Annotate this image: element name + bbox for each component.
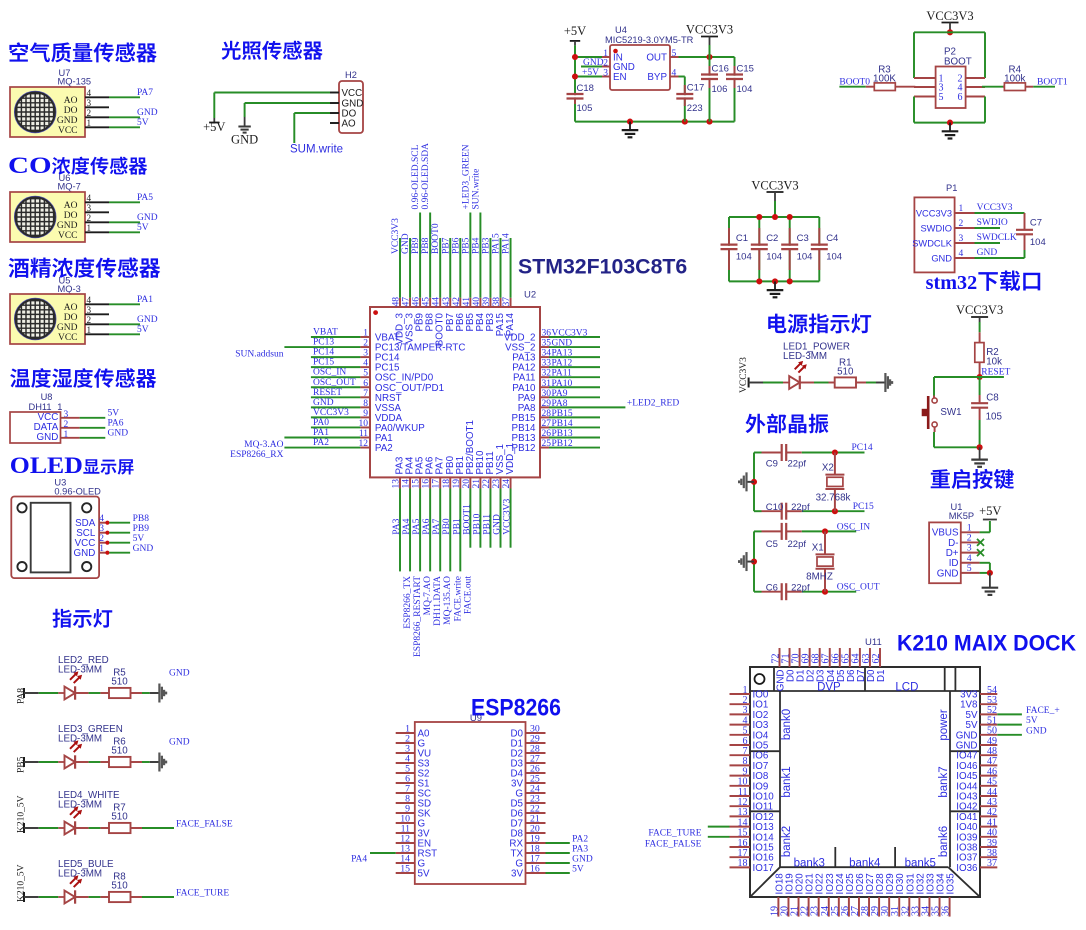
svg-text:22pf: 22pf bbox=[791, 502, 810, 513]
svg-text:STM32F103C8T6: STM32F103C8T6 bbox=[518, 255, 687, 279]
svg-text:22pf: 22pf bbox=[791, 582, 810, 593]
svg-text:VCC3V3: VCC3V3 bbox=[503, 499, 513, 535]
svg-text:PB12: PB12 bbox=[552, 439, 573, 449]
svg-text:C7: C7 bbox=[1030, 218, 1042, 229]
svg-text:100K: 100K bbox=[873, 74, 896, 85]
svg-text:bank2: bank2 bbox=[781, 826, 793, 857]
svg-text:SUN.addsun: SUN.addsun bbox=[235, 349, 284, 359]
svg-text:H2: H2 bbox=[345, 70, 357, 80]
svg-text:2: 2 bbox=[363, 339, 368, 349]
svg-text:5V: 5V bbox=[1026, 716, 1038, 726]
svg-text:IO36: IO36 bbox=[956, 863, 978, 874]
svg-text:3: 3 bbox=[603, 68, 608, 78]
svg-text:VCC3V3: VCC3V3 bbox=[926, 9, 973, 23]
svg-text:SWDIO: SWDIO bbox=[920, 223, 952, 233]
svg-text:U11: U11 bbox=[865, 637, 882, 648]
svg-text:IO35: IO35 bbox=[946, 873, 957, 895]
svg-text:GND: GND bbox=[977, 248, 998, 258]
svg-text:FACE_TURE: FACE_TURE bbox=[176, 889, 229, 899]
svg-text:DO: DO bbox=[64, 106, 78, 116]
svg-text:AO: AO bbox=[64, 303, 78, 313]
svg-text:PB9: PB9 bbox=[133, 524, 150, 534]
svg-text:C6: C6 bbox=[766, 582, 778, 593]
svg-text:PC13: PC13 bbox=[313, 338, 334, 348]
svg-text:U8: U8 bbox=[41, 392, 53, 402]
svg-text:GND: GND bbox=[572, 855, 593, 865]
svg-text:0.96-OLED.SDA: 0.96-OLED.SDA bbox=[421, 143, 431, 210]
svg-text:4: 4 bbox=[363, 359, 368, 369]
svg-text:SWDCLK: SWDCLK bbox=[977, 233, 1017, 243]
svg-text:20: 20 bbox=[462, 479, 472, 489]
svg-text:6: 6 bbox=[958, 92, 963, 103]
svg-text:GND: GND bbox=[493, 514, 503, 535]
svg-text:LED-3MM: LED-3MM bbox=[783, 351, 827, 362]
svg-text:5: 5 bbox=[363, 369, 368, 379]
svg-text:104: 104 bbox=[1030, 237, 1046, 248]
svg-text:1: 1 bbox=[87, 223, 92, 233]
svg-text:PC14: PC14 bbox=[313, 348, 334, 358]
svg-text:PC15: PC15 bbox=[313, 358, 334, 368]
svg-text:PA2: PA2 bbox=[313, 438, 329, 448]
svg-text:OSC_OUT: OSC_OUT bbox=[313, 378, 356, 388]
svg-text:2: 2 bbox=[87, 315, 92, 325]
svg-text:C2: C2 bbox=[766, 233, 778, 244]
svg-text:PA3: PA3 bbox=[392, 518, 402, 534]
svg-text:14: 14 bbox=[402, 479, 412, 489]
svg-text:bank0: bank0 bbox=[781, 709, 793, 740]
svg-text:2: 2 bbox=[87, 213, 92, 223]
svg-text:2: 2 bbox=[87, 108, 92, 118]
svg-text:GND: GND bbox=[169, 738, 190, 748]
svg-text:GND: GND bbox=[231, 133, 258, 147]
svg-text:2: 2 bbox=[959, 219, 964, 229]
svg-text:+5V: +5V bbox=[203, 120, 225, 134]
svg-text:PA3: PA3 bbox=[572, 845, 588, 855]
svg-text:22pf: 22pf bbox=[788, 539, 807, 550]
svg-text:BOOT1: BOOT1 bbox=[462, 504, 472, 535]
svg-text:+5V: +5V bbox=[564, 24, 586, 38]
svg-text:C5: C5 bbox=[766, 539, 778, 550]
svg-text:3: 3 bbox=[959, 234, 964, 244]
svg-text:1: 1 bbox=[64, 430, 69, 440]
svg-text:RESET: RESET bbox=[313, 388, 342, 398]
svg-text:GND: GND bbox=[133, 544, 154, 554]
svg-text:C8: C8 bbox=[986, 393, 999, 404]
svg-text:18: 18 bbox=[738, 858, 748, 869]
svg-text:5V: 5V bbox=[133, 534, 145, 544]
svg-text:AO: AO bbox=[64, 201, 78, 211]
svg-text:PA4: PA4 bbox=[351, 855, 367, 865]
svg-text:FACE_FALSE: FACE_FALSE bbox=[176, 820, 233, 830]
svg-text:2: 2 bbox=[99, 534, 104, 544]
svg-text:DH11.DATA: DH11.DATA bbox=[433, 576, 443, 626]
svg-text:510: 510 bbox=[111, 812, 128, 823]
svg-text:MK5P: MK5P bbox=[949, 511, 974, 521]
svg-text:5V: 5V bbox=[137, 223, 149, 233]
svg-text:8MHZ: 8MHZ bbox=[806, 572, 833, 583]
svg-text:4: 4 bbox=[99, 514, 104, 524]
svg-text:+LED2_RED: +LED2_RED bbox=[627, 399, 679, 409]
svg-text:PB5: PB5 bbox=[461, 237, 471, 254]
svg-text:LED-3MM: LED-3MM bbox=[58, 869, 102, 880]
svg-text:41: 41 bbox=[462, 297, 472, 307]
svg-text:PA12: PA12 bbox=[552, 359, 573, 369]
svg-text:PA15: PA15 bbox=[492, 233, 502, 254]
svg-text:22pf: 22pf bbox=[788, 459, 807, 470]
svg-text:PC15: PC15 bbox=[853, 502, 874, 512]
svg-text:6: 6 bbox=[363, 379, 368, 389]
svg-text:PB7: PB7 bbox=[441, 237, 451, 254]
svg-text:40: 40 bbox=[472, 297, 482, 307]
svg-text:LCD: LCD bbox=[895, 682, 918, 694]
svg-text:46: 46 bbox=[412, 297, 422, 307]
svg-text:MQ-135.AO: MQ-135.AO bbox=[443, 576, 453, 625]
svg-text:MQ-3.AO: MQ-3.AO bbox=[244, 440, 283, 450]
svg-text:C16: C16 bbox=[712, 64, 729, 75]
svg-text:D1: D1 bbox=[876, 670, 887, 683]
svg-text:19: 19 bbox=[452, 479, 462, 489]
svg-text:104: 104 bbox=[736, 252, 752, 263]
svg-text:GND: GND bbox=[74, 548, 96, 559]
svg-text:510: 510 bbox=[111, 881, 128, 892]
svg-text:DVP: DVP bbox=[817, 682, 841, 694]
svg-text:42: 42 bbox=[452, 297, 462, 307]
svg-text:DO: DO bbox=[64, 211, 78, 221]
svg-text:510: 510 bbox=[837, 367, 854, 378]
svg-text:104: 104 bbox=[797, 252, 813, 263]
svg-text:PA4: PA4 bbox=[402, 518, 412, 534]
svg-text:1: 1 bbox=[959, 204, 964, 214]
svg-text:510: 510 bbox=[111, 677, 128, 688]
svg-text:U2: U2 bbox=[524, 290, 536, 301]
svg-text:104: 104 bbox=[826, 252, 842, 263]
svg-text:21: 21 bbox=[472, 479, 482, 489]
svg-text:bank7: bank7 bbox=[938, 766, 950, 797]
svg-text:VCC: VCC bbox=[58, 126, 78, 136]
svg-text:38: 38 bbox=[492, 297, 502, 307]
svg-text:GND: GND bbox=[552, 339, 573, 349]
svg-text:PA7: PA7 bbox=[432, 518, 442, 534]
svg-text:ESP8266_RX: ESP8266_RX bbox=[230, 450, 283, 460]
svg-text:5V: 5V bbox=[108, 409, 120, 419]
svg-text:+LED3_GREEN: +LED3_GREEN bbox=[461, 144, 471, 209]
svg-text:62: 62 bbox=[871, 654, 882, 664]
svg-text:15: 15 bbox=[400, 864, 410, 875]
svg-text:1: 1 bbox=[57, 402, 62, 412]
svg-text:SUN.write: SUN.write bbox=[471, 169, 481, 210]
svg-text:17: 17 bbox=[432, 479, 442, 489]
svg-text:16: 16 bbox=[530, 864, 540, 875]
svg-text:C3: C3 bbox=[797, 233, 809, 244]
svg-text:5V: 5V bbox=[418, 869, 430, 880]
svg-text:1: 1 bbox=[603, 49, 608, 59]
svg-text:bank6: bank6 bbox=[938, 826, 950, 857]
svg-text:PA14: PA14 bbox=[502, 233, 512, 254]
svg-text:C15: C15 bbox=[737, 64, 754, 75]
svg-text:MIC5219-3.0YM5-TR: MIC5219-3.0YM5-TR bbox=[605, 35, 694, 45]
svg-text:MQ-135: MQ-135 bbox=[58, 76, 92, 86]
svg-text:PA1: PA1 bbox=[313, 428, 329, 438]
svg-text:PA0: PA0 bbox=[313, 418, 329, 428]
svg-text:36: 36 bbox=[941, 906, 952, 916]
svg-text:PB8: PB8 bbox=[421, 237, 431, 254]
svg-text:ESP8266_TX: ESP8266_TX bbox=[403, 576, 413, 629]
svg-text:K210 MAIX DOCK: K210 MAIX DOCK bbox=[897, 631, 1076, 656]
svg-text:GND: GND bbox=[931, 253, 952, 263]
svg-text:FACE.write: FACE.write bbox=[453, 576, 463, 621]
svg-text:PB14: PB14 bbox=[552, 419, 573, 429]
svg-text:105: 105 bbox=[577, 103, 593, 114]
svg-text:100k: 100k bbox=[1004, 74, 1025, 85]
svg-text:0.96-OLED.SCL: 0.96-OLED.SCL bbox=[411, 144, 421, 209]
svg-text:45: 45 bbox=[422, 297, 432, 307]
svg-text:GND: GND bbox=[583, 58, 604, 68]
svg-text:22: 22 bbox=[482, 479, 492, 489]
svg-text:3: 3 bbox=[64, 410, 69, 420]
svg-text:MQ-3: MQ-3 bbox=[58, 284, 81, 294]
svg-text:VCC3V3: VCC3V3 bbox=[916, 208, 952, 218]
svg-text:PB0: PB0 bbox=[442, 518, 452, 535]
svg-text:GND: GND bbox=[313, 398, 334, 408]
svg-text:SW1: SW1 bbox=[940, 407, 961, 418]
svg-text:BOOT0: BOOT0 bbox=[431, 223, 441, 254]
svg-text:FACE_+: FACE_+ bbox=[1026, 706, 1060, 716]
svg-text:PB10: PB10 bbox=[472, 513, 482, 534]
svg-text:4: 4 bbox=[87, 295, 92, 305]
svg-text:13: 13 bbox=[392, 479, 402, 489]
svg-text:47: 47 bbox=[402, 297, 412, 307]
svg-text:PA2: PA2 bbox=[375, 443, 393, 454]
svg-text:C4: C4 bbox=[826, 233, 838, 244]
svg-text:bank3: bank3 bbox=[794, 857, 825, 869]
svg-text:44: 44 bbox=[432, 297, 442, 307]
svg-text:1: 1 bbox=[363, 329, 368, 339]
svg-text:LED-3MM: LED-3MM bbox=[58, 665, 102, 676]
svg-text:MQ-7: MQ-7 bbox=[58, 181, 81, 191]
svg-text:LED-3MM: LED-3MM bbox=[58, 800, 102, 811]
svg-text:VCC3V3: VCC3V3 bbox=[739, 357, 749, 393]
svg-text:X2: X2 bbox=[822, 463, 834, 474]
svg-text:VCC: VCC bbox=[58, 333, 78, 343]
svg-text:C17: C17 bbox=[687, 83, 704, 94]
svg-text:PC14: PC14 bbox=[852, 443, 873, 453]
svg-text:223: 223 bbox=[687, 103, 703, 114]
svg-text:1: 1 bbox=[99, 544, 104, 554]
svg-text:5: 5 bbox=[672, 49, 677, 59]
svg-text:PB11: PB11 bbox=[482, 514, 492, 535]
svg-text:16: 16 bbox=[422, 479, 432, 489]
svg-text:PA13: PA13 bbox=[552, 349, 573, 359]
svg-text:VCC3V3: VCC3V3 bbox=[686, 23, 733, 37]
svg-text:10k: 10k bbox=[986, 357, 1002, 368]
svg-text:+5V: +5V bbox=[582, 68, 599, 78]
svg-text:U4: U4 bbox=[615, 25, 627, 35]
svg-text:PA14: PA14 bbox=[505, 312, 516, 336]
svg-text:VCC: VCC bbox=[342, 88, 363, 99]
svg-text:AO: AO bbox=[342, 119, 357, 130]
svg-text:37: 37 bbox=[502, 297, 512, 307]
svg-text:OSC_OUT: OSC_OUT bbox=[837, 583, 880, 593]
svg-text:3: 3 bbox=[87, 98, 92, 108]
svg-text:106: 106 bbox=[712, 84, 728, 95]
svg-text:3: 3 bbox=[87, 203, 92, 213]
svg-text:FACE_FALSE: FACE_FALSE bbox=[645, 839, 702, 849]
svg-text:510: 510 bbox=[111, 746, 128, 757]
svg-text:24: 24 bbox=[502, 479, 512, 489]
svg-text:RESET: RESET bbox=[981, 367, 1010, 377]
svg-text:C9: C9 bbox=[766, 459, 778, 470]
svg-text:7: 7 bbox=[363, 389, 368, 399]
svg-text:GND: GND bbox=[937, 568, 959, 579]
svg-text:PB8: PB8 bbox=[133, 514, 150, 524]
svg-text:+5V: +5V bbox=[979, 504, 1001, 518]
svg-text:PA7: PA7 bbox=[137, 88, 153, 98]
svg-text:bank5: bank5 bbox=[905, 857, 936, 869]
svg-text:3: 3 bbox=[99, 524, 104, 534]
svg-text:PB1: PB1 bbox=[452, 518, 462, 535]
svg-text:OLED: OLED bbox=[10, 453, 83, 479]
svg-text:GND: GND bbox=[57, 116, 78, 126]
svg-text:3: 3 bbox=[363, 349, 368, 359]
svg-text:VCC3V3: VCC3V3 bbox=[956, 303, 1003, 317]
svg-text:GND: GND bbox=[37, 432, 59, 443]
svg-text:P1: P1 bbox=[946, 183, 957, 193]
svg-text:PA11: PA11 bbox=[552, 369, 573, 379]
svg-text:23: 23 bbox=[492, 479, 502, 489]
svg-text:SWDCLK: SWDCLK bbox=[912, 238, 953, 248]
svg-text:5V: 5V bbox=[572, 865, 584, 875]
svg-text:bank4: bank4 bbox=[849, 857, 881, 869]
svg-text:PA1: PA1 bbox=[137, 295, 153, 305]
svg-text:VCC3V3: VCC3V3 bbox=[977, 203, 1013, 213]
svg-text:MQ-7.AO: MQ-7.AO bbox=[423, 576, 433, 615]
svg-text:VCC3V3: VCC3V3 bbox=[391, 218, 401, 254]
svg-text:VCC3V3: VCC3V3 bbox=[751, 179, 798, 193]
svg-text:32.768k: 32.768k bbox=[816, 493, 851, 504]
svg-text:AO: AO bbox=[64, 96, 78, 106]
svg-text:VCC3V3: VCC3V3 bbox=[552, 329, 588, 339]
svg-text:3: 3 bbox=[87, 305, 92, 315]
svg-text:5: 5 bbox=[939, 92, 944, 103]
svg-text:VCC: VCC bbox=[58, 231, 78, 241]
svg-text:3V: 3V bbox=[511, 869, 523, 880]
svg-text:PA5: PA5 bbox=[412, 518, 422, 534]
svg-text:39: 39 bbox=[482, 297, 492, 307]
svg-text:5: 5 bbox=[967, 563, 972, 574]
svg-text:FACE.out: FACE.out bbox=[463, 576, 473, 614]
svg-text:FACE_TURE: FACE_TURE bbox=[648, 828, 701, 838]
svg-text:1: 1 bbox=[87, 118, 92, 128]
svg-text:PB15: PB15 bbox=[552, 409, 573, 419]
svg-text:PB4: PB4 bbox=[471, 237, 481, 254]
svg-text:OSC_IN: OSC_IN bbox=[837, 523, 870, 533]
svg-text:C1: C1 bbox=[736, 233, 748, 244]
svg-text:5V: 5V bbox=[137, 325, 149, 335]
svg-text:PA2: PA2 bbox=[572, 835, 588, 845]
svg-text:105: 105 bbox=[986, 412, 1003, 423]
svg-text:BOOT1: BOOT1 bbox=[1037, 78, 1068, 88]
svg-text:GND: GND bbox=[137, 315, 158, 325]
svg-text:PB6: PB6 bbox=[451, 237, 461, 254]
svg-text:GND: GND bbox=[108, 429, 129, 439]
svg-text:PB9: PB9 bbox=[411, 237, 421, 254]
svg-text:104: 104 bbox=[737, 84, 753, 95]
svg-text:GND: GND bbox=[1026, 726, 1047, 736]
svg-text:PA10: PA10 bbox=[552, 379, 573, 389]
svg-text:X1: X1 bbox=[812, 543, 824, 554]
svg-text:C10: C10 bbox=[766, 502, 783, 513]
svg-text:DH11: DH11 bbox=[29, 402, 52, 412]
svg-text:GND: GND bbox=[401, 233, 411, 254]
svg-text:GND: GND bbox=[57, 323, 78, 333]
svg-text:C18: C18 bbox=[577, 83, 594, 94]
svg-text:15: 15 bbox=[412, 479, 422, 489]
svg-text:PB13: PB13 bbox=[552, 429, 573, 439]
svg-text:LED-3MM: LED-3MM bbox=[58, 734, 102, 745]
svg-text:BYP: BYP bbox=[647, 72, 667, 83]
svg-text:VDD_1: VDD_1 bbox=[505, 443, 516, 475]
svg-text:0.96-OLED: 0.96-OLED bbox=[54, 487, 101, 497]
svg-text:4: 4 bbox=[959, 249, 964, 259]
svg-text:ESP8266: ESP8266 bbox=[471, 696, 561, 722]
svg-text:CO: CO bbox=[8, 153, 52, 178]
svg-text:VBAT: VBAT bbox=[313, 328, 338, 338]
svg-text:18: 18 bbox=[442, 479, 452, 489]
svg-text:GND: GND bbox=[137, 213, 158, 223]
svg-text:8: 8 bbox=[363, 399, 368, 409]
svg-text:power: power bbox=[938, 709, 950, 740]
svg-text:VCC3V3: VCC3V3 bbox=[313, 408, 349, 418]
svg-text:OUT: OUT bbox=[646, 53, 667, 64]
svg-text:PA6: PA6 bbox=[108, 419, 124, 429]
svg-text:37: 37 bbox=[987, 858, 997, 869]
svg-text:1: 1 bbox=[87, 325, 92, 335]
svg-text:GND: GND bbox=[169, 669, 190, 679]
svg-text:9: 9 bbox=[363, 409, 368, 419]
svg-text:48: 48 bbox=[392, 297, 402, 307]
svg-text:DO: DO bbox=[64, 313, 78, 323]
svg-text:SWDIO: SWDIO bbox=[977, 218, 1008, 228]
svg-text:2: 2 bbox=[64, 420, 69, 430]
svg-text:IO17: IO17 bbox=[753, 863, 774, 874]
svg-text:PB3: PB3 bbox=[481, 237, 491, 254]
svg-text:PA9: PA9 bbox=[552, 389, 568, 399]
svg-text:GND: GND bbox=[137, 108, 158, 118]
svg-text:ESP8266_RESTART: ESP8266_RESTART bbox=[413, 576, 423, 657]
svg-text:4: 4 bbox=[87, 88, 92, 98]
svg-text:104: 104 bbox=[766, 252, 782, 263]
svg-text:PA6: PA6 bbox=[422, 518, 432, 534]
svg-text:4: 4 bbox=[672, 68, 677, 78]
svg-text:4: 4 bbox=[87, 193, 92, 203]
svg-text:2: 2 bbox=[603, 58, 608, 68]
svg-text:PA5: PA5 bbox=[137, 193, 153, 203]
svg-text:bank1: bank1 bbox=[781, 766, 793, 797]
svg-text:GND: GND bbox=[57, 221, 78, 231]
svg-text:SUM.write: SUM.write bbox=[290, 144, 343, 156]
svg-text:5V: 5V bbox=[137, 118, 149, 128]
svg-text:OSC_IN: OSC_IN bbox=[313, 368, 346, 378]
svg-text:43: 43 bbox=[442, 297, 452, 307]
svg-text:EN: EN bbox=[613, 72, 627, 83]
svg-text:PA8: PA8 bbox=[552, 399, 568, 409]
svg-text:stm32: stm32 bbox=[926, 272, 978, 294]
